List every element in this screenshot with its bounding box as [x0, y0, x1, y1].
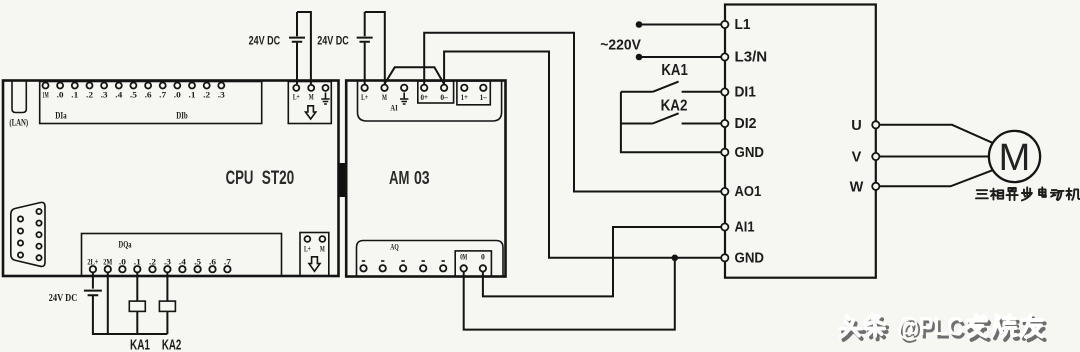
svg-text:.1: .1 [189, 89, 196, 99]
svg-text:GND: GND [735, 145, 765, 161]
svg-text:.0: .0 [57, 89, 64, 99]
svg-text:03: 03 [414, 168, 430, 188]
svg-text:.3: .3 [164, 256, 171, 266]
svg-text:.2: .2 [86, 89, 93, 99]
svg-text:1–: 1– [480, 92, 488, 102]
svg-text:L3/N: L3/N [735, 50, 768, 66]
svg-text:.2: .2 [203, 89, 210, 99]
svg-text:2M: 2M [103, 256, 112, 266]
svg-text:DIa: DIa [55, 110, 67, 120]
svg-text:0–: 0– [440, 92, 448, 102]
svg-text:AI: AI [390, 103, 398, 113]
svg-text:CPU: CPU [226, 168, 254, 189]
svg-text:DI1: DI1 [735, 85, 756, 101]
svg-text:1M: 1M [42, 89, 49, 99]
svg-text:.1: .1 [134, 256, 141, 266]
svg-text:AM: AM [389, 168, 409, 188]
svg-text:.7: .7 [224, 256, 232, 266]
svg-text:AO1: AO1 [735, 184, 762, 200]
svg-text:KA1: KA1 [130, 337, 150, 352]
svg-text:GND: GND [735, 250, 765, 266]
svg-text:L+: L+ [293, 92, 300, 102]
svg-text:.3: .3 [218, 89, 225, 99]
svg-text:@PLC: @PLC [897, 311, 963, 341]
svg-text:V: V [852, 150, 862, 166]
svg-text:U: U [851, 118, 861, 134]
svg-text:AI1: AI1 [735, 220, 755, 236]
svg-text:~220V: ~220V [600, 37, 641, 54]
svg-text:AQ: AQ [390, 241, 399, 251]
svg-text:1+: 1+ [461, 92, 468, 102]
svg-text:M: M [999, 137, 1031, 179]
svg-text:.6: .6 [209, 256, 216, 266]
svg-text:L1: L1 [735, 17, 751, 33]
svg-text:.4: .4 [115, 89, 123, 99]
svg-text:24V DC: 24V DC [249, 35, 281, 47]
svg-text:DIb: DIb [176, 110, 188, 120]
svg-text:KA2: KA2 [661, 97, 688, 114]
svg-text:.0: .0 [119, 256, 126, 266]
svg-text:DQa: DQa [119, 240, 132, 250]
svg-text:2L+: 2L+ [87, 256, 98, 266]
svg-text:M: M [309, 92, 314, 102]
svg-text:.4: .4 [179, 256, 187, 266]
svg-text:0+: 0+ [420, 92, 428, 102]
svg-text:KA2: KA2 [162, 337, 182, 352]
svg-text:W: W [850, 179, 864, 195]
svg-text:(LAN): (LAN) [9, 117, 28, 127]
svg-text:24V DC: 24V DC [49, 293, 78, 304]
svg-text:ST20: ST20 [262, 168, 295, 189]
svg-text:.3: .3 [101, 89, 108, 99]
svg-text:.2: .2 [149, 256, 156, 266]
svg-text:M: M [320, 243, 325, 253]
svg-text:0M: 0M [460, 252, 467, 262]
svg-text:24V DC: 24V DC [317, 35, 349, 47]
svg-text:DI2: DI2 [735, 116, 757, 132]
svg-text:KA1: KA1 [661, 62, 688, 79]
svg-text:.7: .7 [159, 89, 167, 99]
svg-text:.5: .5 [130, 89, 137, 99]
svg-text:L+: L+ [304, 243, 311, 253]
svg-text:.5: .5 [194, 256, 201, 266]
svg-text:.0: .0 [174, 89, 181, 99]
svg-text:L+: L+ [361, 92, 368, 102]
svg-text:.6: .6 [145, 89, 152, 99]
svg-text:0: 0 [481, 252, 485, 262]
svg-text:M: M [382, 92, 387, 102]
svg-text:.1: .1 [71, 89, 78, 99]
